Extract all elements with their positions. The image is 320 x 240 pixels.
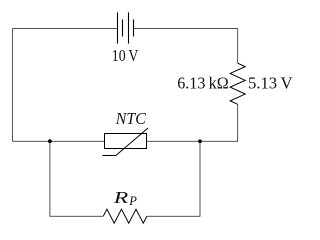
node right junction	[198, 139, 202, 143]
wire right below resistor	[146, 104, 237, 141]
wire bottom-right	[147, 141, 200, 216]
svg-text:R: R	[112, 188, 128, 207]
svg-text:NTC: NTC	[115, 109, 147, 128]
svg-text:6.13 kΩ: 6.13 kΩ	[177, 73, 229, 92]
wire top-left segment	[13, 29, 118, 142]
battery V1	[118, 12, 134, 43]
wire top-right segment	[134, 29, 238, 64]
svg-text:P: P	[128, 194, 137, 208]
node left junction	[48, 139, 52, 143]
resistor RP zigzag	[103, 209, 147, 223]
resistor 6.13k zigzag	[230, 63, 245, 104]
wire left branch down	[50, 141, 103, 216]
wire NTC row left	[13, 140, 105, 142]
svg-text:10 V: 10 V	[112, 46, 139, 65]
svg-text:5.13 V: 5.13 V	[248, 73, 293, 92]
thermistor NTC body	[102, 128, 148, 156]
